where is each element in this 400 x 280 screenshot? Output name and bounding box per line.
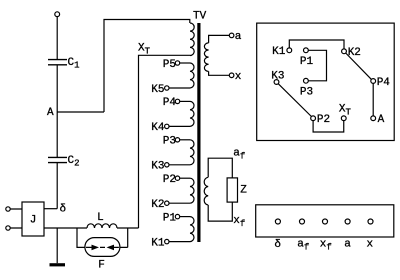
terminal input top-left: [55, 12, 60, 17]
svg-text:x: x: [235, 71, 242, 83]
node XT wire: [139, 55, 191, 228]
svg-text:P2: P2: [163, 174, 176, 186]
wire: [56, 65, 58, 157]
terminal K3d: [274, 80, 279, 85]
capacitor C2: [48, 157, 67, 162]
svg-text:δ: δ: [59, 203, 66, 215]
wire: [44, 227, 87, 229]
svg-text:Z: Z: [240, 185, 247, 197]
winding section 3: [190, 140, 194, 165]
svg-text:P1: P1: [163, 212, 177, 224]
svg-text:K3: K3: [271, 70, 284, 82]
secondary winding af-xf: [208, 158, 232, 178]
capacitor C1: [48, 60, 67, 65]
tap P5: [175, 61, 179, 65]
terminal XTd: [341, 116, 346, 121]
strip terminal 2: [300, 219, 305, 224]
svg-text:P5: P5: [163, 59, 176, 71]
terminal a: [229, 33, 234, 38]
svg-text:δ: δ: [274, 239, 281, 251]
inductor L: [87, 224, 117, 228]
strip terminal 4: [345, 219, 350, 224]
terminal Ad: [371, 116, 376, 121]
svg-text:F: F: [98, 259, 105, 271]
wire K1-K2: [289, 40, 344, 49]
svg-text:P4: P4: [377, 77, 391, 89]
strip terminal 3: [323, 219, 328, 224]
svg-text:af: af: [297, 239, 309, 253]
svg-text:P3: P3: [300, 86, 313, 98]
connection diagram box: [257, 23, 395, 140]
tap P2: [175, 176, 179, 180]
svg-text:K1: K1: [272, 46, 286, 58]
terminal K2d: [342, 49, 347, 54]
svg-text:P2: P2: [317, 114, 330, 126]
terminal P4d: [371, 79, 376, 84]
winding section 2: [190, 178, 194, 203]
svg-text:TV: TV: [193, 11, 207, 23]
tap P1: [175, 214, 179, 218]
wire K3-P2: [278, 84, 311, 117]
tap K2: [165, 201, 169, 205]
transformer TV core: [197, 23, 200, 242]
svg-text:xf: xf: [233, 215, 245, 229]
winding section top: [190, 23, 194, 55]
svg-text:L: L: [97, 212, 104, 224]
impedance Z: [227, 178, 237, 202]
svg-text:K4: K4: [151, 122, 165, 134]
discharge gap F: [85, 238, 120, 257]
svg-text:C2: C2: [68, 155, 80, 169]
node A: [57, 111, 104, 113]
wire P2-XT: [313, 121, 344, 132]
wire: [10, 209, 22, 228]
terminal P1d: [304, 48, 309, 53]
svg-text:xf: xf: [320, 239, 332, 253]
terminal P2d: [311, 116, 316, 121]
winding section 5: [190, 63, 194, 88]
svg-text:a: a: [235, 31, 242, 43]
svg-text:P4: P4: [163, 97, 177, 109]
wire K2-P4: [346, 53, 372, 79]
wire: [56, 163, 58, 209]
svg-text:P1: P1: [300, 56, 314, 68]
tap K1: [165, 239, 169, 243]
winding section 1: [190, 217, 194, 242]
svg-text:K2: K2: [151, 199, 164, 211]
tap P3: [175, 138, 179, 142]
wire P4-A: [372, 83, 374, 116]
relay J: [22, 202, 44, 236]
svg-text:af: af: [233, 148, 245, 162]
wire: [117, 227, 139, 229]
secondary winding a-x: [209, 35, 230, 43]
tap K3: [165, 163, 169, 167]
svg-text:K3: K3: [151, 161, 164, 173]
terminal J lower: [6, 226, 10, 230]
strip terminal 1: [275, 219, 280, 224]
svg-text:A: A: [378, 114, 385, 126]
wire: [120, 228, 128, 247]
svg-text:P3: P3: [163, 136, 176, 148]
svg-text:K2: K2: [348, 47, 361, 59]
node delta: [44, 208, 57, 210]
strip terminal 5: [368, 219, 373, 224]
terminal x: [229, 73, 234, 78]
svg-text:XT: XT: [138, 42, 151, 56]
svg-text:A: A: [47, 107, 54, 119]
wire: [56, 17, 58, 59]
wire: [77, 228, 86, 247]
wire P1-P3: [308, 50, 326, 81]
terminal strip box: [256, 205, 394, 237]
svg-text:K5: K5: [151, 84, 164, 96]
winding section 4: [190, 101, 194, 126]
svg-text:x: x: [366, 239, 373, 251]
ground: [56, 228, 58, 263]
terminal P3d: [304, 78, 309, 83]
wire: [104, 20, 190, 113]
terminal K1d: [287, 48, 292, 53]
tap K5: [165, 86, 169, 90]
svg-text:a: a: [344, 239, 351, 251]
svg-text:C1: C1: [68, 57, 80, 71]
svg-text:J: J: [30, 214, 37, 226]
svg-text:K1: K1: [151, 237, 165, 249]
tap K4: [165, 124, 169, 128]
terminal J upper: [6, 207, 10, 211]
tap P4: [175, 99, 179, 103]
